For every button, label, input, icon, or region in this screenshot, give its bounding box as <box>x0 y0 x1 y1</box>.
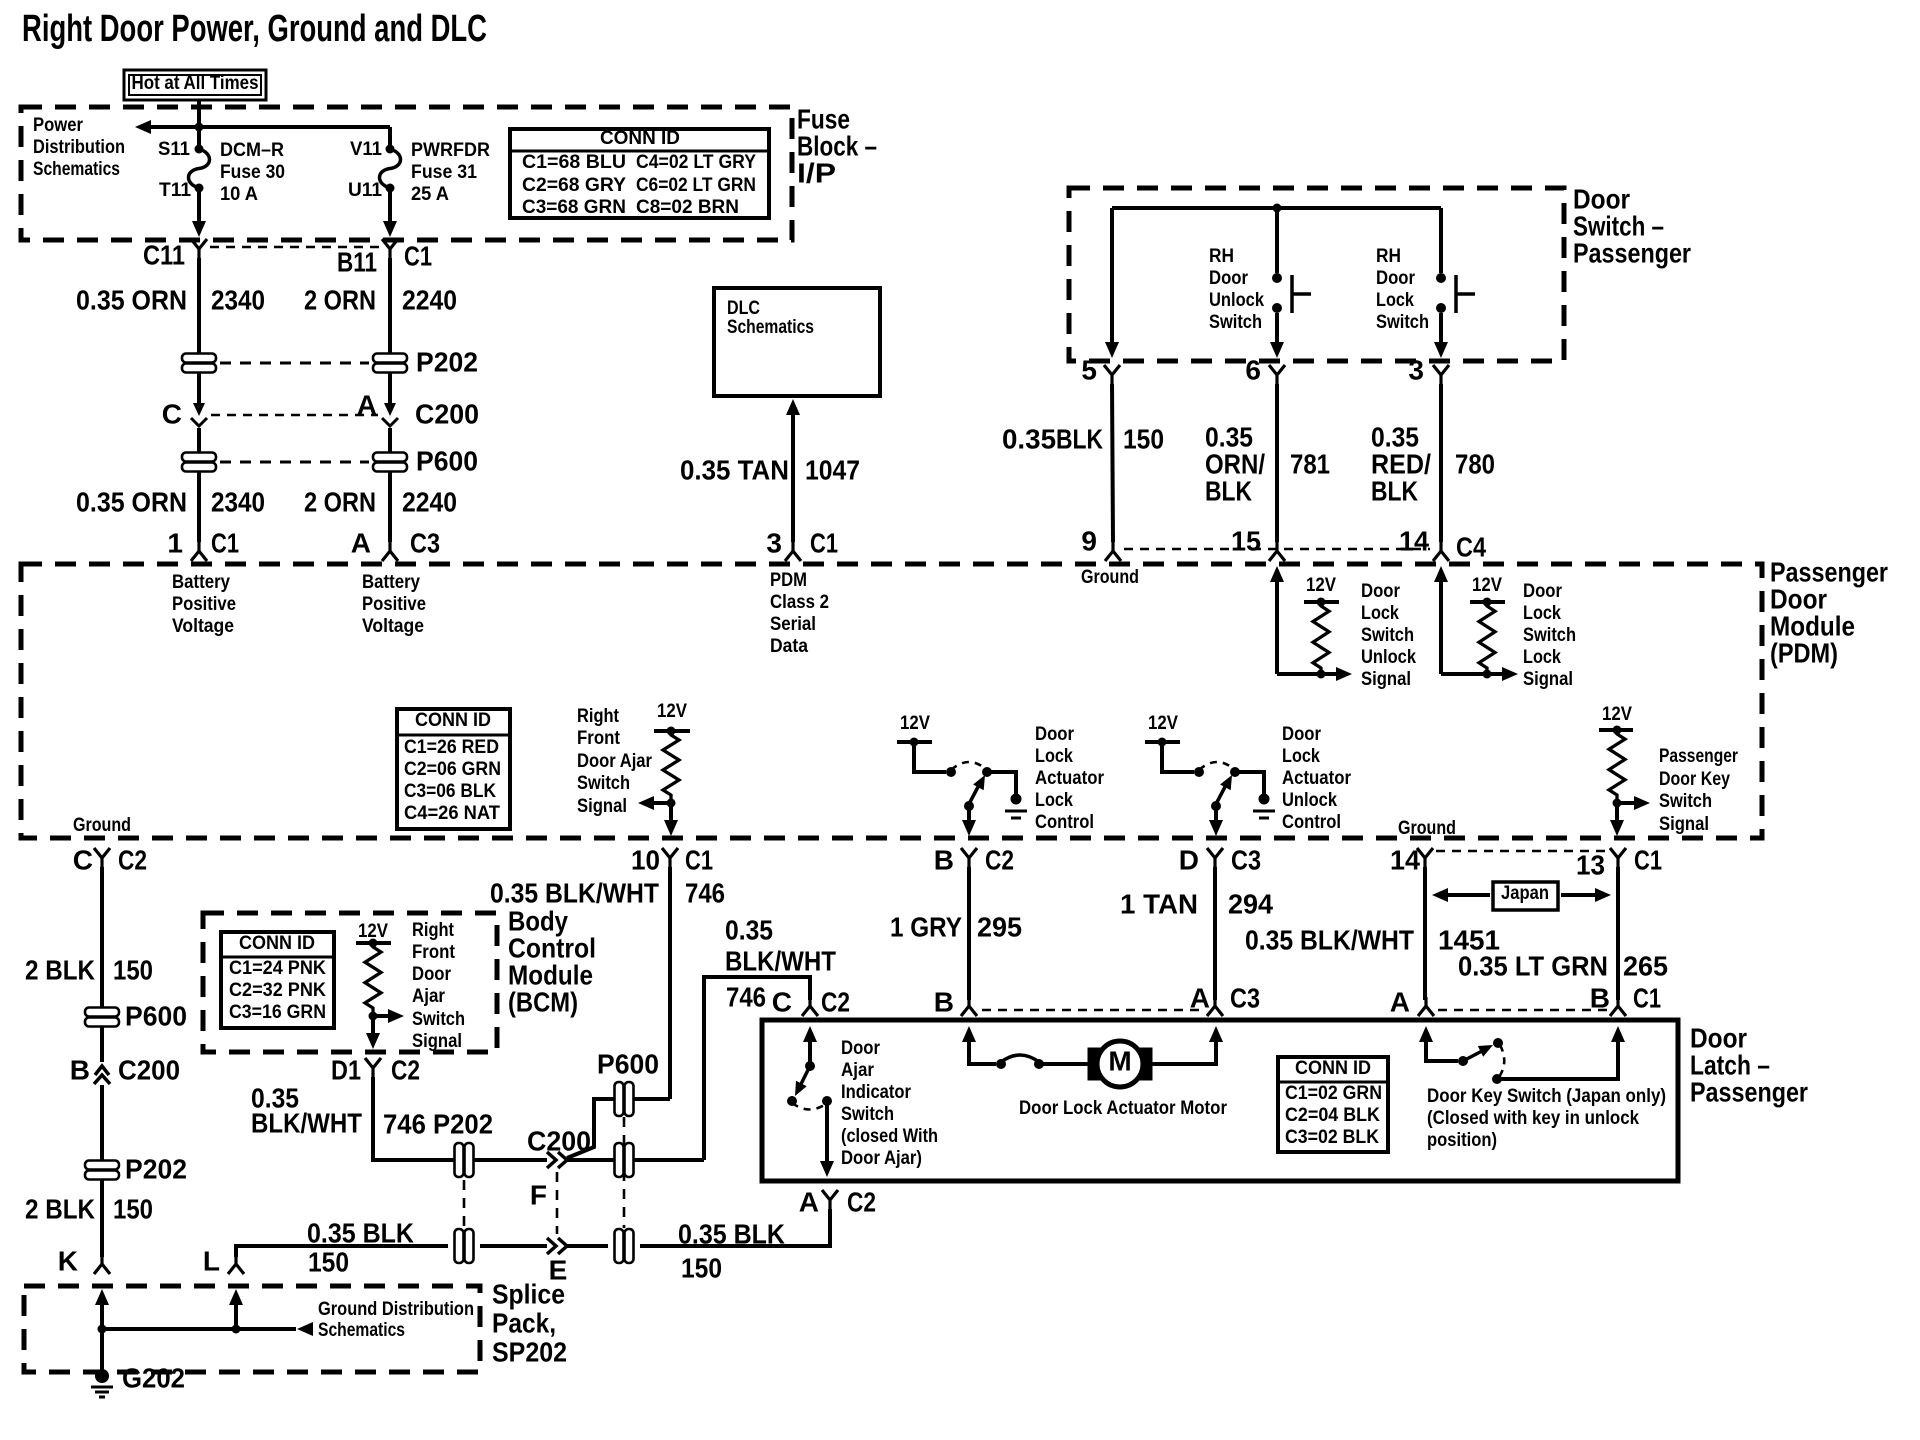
connector row C11-B11 dashed line <box>210 246 380 248</box>
svg-text:746: 746 <box>726 981 766 1012</box>
resistor unlock signal <box>1313 602 1329 672</box>
wire label 0.35 BLK/WHT 746 BCM <box>251 1082 493 1139</box>
svg-text:14: 14 <box>1399 525 1429 556</box>
svg-text:Switch: Switch <box>1209 312 1262 333</box>
latch pin A C3 <box>1190 982 1260 1016</box>
right front door ajar switch signal label <box>577 706 653 817</box>
svg-text:C200: C200 <box>118 1054 180 1085</box>
svg-text:Switch: Switch <box>577 773 630 794</box>
splice L entry arrow <box>229 1289 243 1329</box>
svg-text:Passenger: Passenger <box>1573 237 1691 268</box>
svg-text:Lock: Lock <box>1376 290 1414 311</box>
svg-text:BLK: BLK <box>1205 475 1252 506</box>
svg-text:C3=02 BLK: C3=02 BLK <box>1285 1127 1379 1148</box>
svg-text:0.35: 0.35 <box>1002 423 1056 454</box>
connector P202 on ground run <box>455 1229 474 1263</box>
connector C200 B on ground wire <box>70 1054 180 1085</box>
svg-text:150: 150 <box>308 1246 349 1277</box>
door switch pin 6 <box>1245 354 1285 385</box>
fuse block label <box>797 103 877 188</box>
svg-text:B: B <box>934 986 954 1017</box>
wire 2240 lower segment <box>388 472 392 542</box>
svg-text:Fuse 31: Fuse 31 <box>411 162 477 183</box>
svg-text:P202: P202 <box>416 346 478 377</box>
wire 150 lower to splice <box>100 1180 104 1257</box>
connector P600 lower on 746 <box>615 1143 634 1177</box>
latch pin B <box>934 986 977 1017</box>
svg-text:Unlock: Unlock <box>1282 790 1337 811</box>
svg-text:C4=26 NAT: C4=26 NAT <box>404 803 500 824</box>
svg-text:C200: C200 <box>415 398 479 429</box>
resistor key switch <box>1609 730 1625 799</box>
svg-text:15: 15 <box>1231 525 1261 556</box>
junction at S11 feed <box>195 123 204 132</box>
wire label 0.35 LT GRN 265 <box>1458 950 1668 981</box>
svg-text:C2: C2 <box>391 1054 420 1085</box>
svg-text:Battery: Battery <box>172 572 230 593</box>
svg-text:position): position) <box>1427 1130 1497 1151</box>
splice connector E <box>547 1238 567 1285</box>
wire between P600 and C200 <box>100 1027 104 1062</box>
connector P202 inline pair <box>182 346 478 377</box>
svg-text:C2: C2 <box>821 986 850 1017</box>
svg-text:A: A <box>799 1186 819 1217</box>
svg-text:1047: 1047 <box>805 454 860 485</box>
wire fuse30 to C11 <box>192 192 206 237</box>
ground branch wire in door switch <box>1105 208 1119 358</box>
connector P600 upper on 746 <box>597 1048 659 1116</box>
wire label 0.35 BLK/WHT 1451 <box>1245 924 1500 955</box>
svg-text:Ground: Ground <box>73 815 131 836</box>
svg-text:Door: Door <box>1361 581 1401 602</box>
door switch pin 5 <box>1081 354 1120 385</box>
ground distribution schematics label <box>318 1299 474 1341</box>
svg-text:(BCM): (BCM) <box>508 986 578 1017</box>
svg-text:B: B <box>934 844 954 875</box>
P600 same-connector dashed link <box>623 1117 626 1228</box>
svg-text:PDM: PDM <box>770 570 807 591</box>
wire 746 up to latch pin C <box>704 977 810 1160</box>
svg-text:C4=02 LT GRY: C4=02 LT GRY <box>636 152 756 173</box>
svg-text:Control: Control <box>1035 812 1094 833</box>
key switch junction arrow <box>1613 796 1651 810</box>
svg-text:Ajar: Ajar <box>841 1060 875 1081</box>
door switch pin 3 <box>1408 354 1449 385</box>
wire 295 pin B to latch <box>967 867 971 1000</box>
door latch passenger box <box>762 1020 1678 1181</box>
door latch CONN ID table <box>1278 1057 1388 1152</box>
splice bus junction K <box>98 1325 107 1334</box>
svg-text:0.35 LT GRN: 0.35 LT GRN <box>1458 950 1608 981</box>
svg-text:C2: C2 <box>118 844 147 875</box>
PDM CONN ID table <box>397 709 510 829</box>
svg-text:12V: 12V <box>900 713 930 734</box>
svg-text:C2=04 BLK: C2=04 BLK <box>1285 1105 1380 1126</box>
svg-text:0.35 TAN: 0.35 TAN <box>680 454 789 485</box>
svg-text:U11: U11 <box>348 180 382 201</box>
svg-text:746 P202: 746 P202 <box>383 1108 493 1139</box>
svg-text:C1=68 BLU: C1=68 BLU <box>522 152 626 173</box>
latch pin B C1 <box>1590 982 1661 1016</box>
svg-text:C3=06 BLK: C3=06 BLK <box>404 781 496 802</box>
svg-text:B11: B11 <box>337 246 377 277</box>
svg-text:2240: 2240 <box>402 284 457 315</box>
svg-text:Signal: Signal <box>1523 669 1573 690</box>
splice pack label <box>492 1278 567 1367</box>
latch pin C C2 <box>772 986 850 1017</box>
junction in door switch <box>1273 204 1282 213</box>
wire label 0.35 BLK/WHT 746 latch <box>725 914 836 1012</box>
svg-text:Voltage: Voltage <box>362 616 424 637</box>
wire segment between C200 and P600 left <box>197 428 201 452</box>
unlock switch branch wire <box>1275 208 1279 273</box>
svg-text:Actuator: Actuator <box>1035 768 1105 789</box>
title text <box>22 8 487 50</box>
svg-text:781: 781 <box>1290 448 1330 479</box>
PDM label <box>1770 556 1888 668</box>
svg-text:Positive: Positive <box>362 594 426 615</box>
resistor lock signal <box>1479 602 1495 672</box>
P202 same-connector dashed link <box>463 1180 466 1228</box>
svg-text:DCM–R: DCM–R <box>220 140 284 161</box>
12V label unlock signal <box>1306 575 1336 596</box>
svg-text:2 ORN: 2 ORN <box>304 284 376 315</box>
svg-text:C1=02 GRN: C1=02 GRN <box>1285 1083 1382 1104</box>
wire label 0.35 TAN 1047 <box>680 454 860 485</box>
door lock switch lock signal label <box>1523 581 1576 690</box>
door lock actuator unlock control switch <box>1194 762 1240 811</box>
ground branch lock control <box>987 772 1027 818</box>
svg-text:Lock: Lock <box>1361 603 1399 624</box>
svg-text:Indicator: Indicator <box>841 1082 912 1103</box>
svg-text:1: 1 <box>167 527 183 558</box>
pin 14 internal wire <box>1434 566 1487 674</box>
wire 2340 lower segment <box>197 472 201 542</box>
ground label right PDM <box>1398 818 1456 839</box>
battery positive voltage label 1 <box>172 572 236 637</box>
svg-text:0.35 BLK/WHT: 0.35 BLK/WHT <box>490 877 659 908</box>
wire 780 <box>1439 384 1443 542</box>
svg-text:DLC: DLC <box>727 298 760 319</box>
svg-text:Switch: Switch <box>1361 625 1414 646</box>
svg-text:Door Ajar): Door Ajar) <box>841 1148 922 1169</box>
svg-text:T11: T11 <box>159 180 191 201</box>
12V label unlock control <box>1148 713 1178 734</box>
svg-text:A: A <box>357 389 377 420</box>
svg-text:BLK/WHT: BLK/WHT <box>725 945 836 976</box>
resistor door ajar PDM <box>663 731 679 799</box>
PDM class 2 serial data label <box>770 570 829 657</box>
fuse block CONN ID table <box>510 128 769 218</box>
svg-text:294: 294 <box>1228 888 1273 919</box>
wire ground run E to P202 <box>480 1244 547 1248</box>
svg-text:265: 265 <box>1623 950 1668 981</box>
svg-text:Ground: Ground <box>1398 818 1456 839</box>
svg-text:Signal: Signal <box>1361 669 1411 690</box>
svg-text:C3: C3 <box>1231 844 1261 875</box>
fuse 31 PWRFDR <box>348 139 490 205</box>
wire fuse31 to B11 <box>383 192 397 237</box>
svg-text:Data: Data <box>770 636 808 657</box>
lock switch branch wire <box>1439 208 1443 273</box>
ground branch unlock control <box>1235 772 1275 818</box>
latch pin A C2 bottom <box>799 1186 876 1217</box>
wire label 0.35 ORN/BLK 781 <box>1205 421 1330 506</box>
svg-text:C11: C11 <box>143 239 185 270</box>
svg-text:P600: P600 <box>416 445 478 476</box>
svg-text:Signal: Signal <box>1659 814 1709 835</box>
wire motor to pin A C3 <box>1152 1026 1223 1064</box>
svg-text:10: 10 <box>631 844 660 875</box>
12V label key switch <box>1602 704 1632 725</box>
svg-text:2 BLK: 2 BLK <box>25 1193 95 1224</box>
svg-text:Lock: Lock <box>1282 746 1320 767</box>
wire label 0.35 BLK 150 right <box>678 1218 785 1283</box>
svg-text:Schematics: Schematics <box>33 159 120 180</box>
hot at all times label box <box>124 70 266 100</box>
connector P202 inline on 746 <box>455 1143 474 1177</box>
C200 F to E dashed link <box>530 1172 557 1234</box>
svg-text:C2: C2 <box>985 844 1014 875</box>
svg-text:Schematics: Schematics <box>727 317 814 338</box>
svg-text:Switch: Switch <box>1376 312 1429 333</box>
svg-text:Door Key Switch (Japan only): Door Key Switch (Japan only) <box>1427 1086 1666 1107</box>
battery positive voltage label 2 <box>362 572 426 637</box>
wire unlock control to pin D <box>1209 806 1223 836</box>
svg-text:C8=02 BRN: C8=02 BRN <box>636 197 739 218</box>
svg-text:Pack,: Pack, <box>492 1307 556 1338</box>
svg-text:0.35 ORN: 0.35 ORN <box>76 486 187 517</box>
wire segment between P202 and C200 right <box>388 373 392 405</box>
wire door ajar to pin 10 <box>664 803 678 836</box>
wire 265 pin 13 to latch <box>1616 867 1620 1000</box>
svg-text:Lock: Lock <box>1523 603 1561 624</box>
wire segment between P202 and C200 left <box>197 373 201 405</box>
svg-text:C4: C4 <box>1456 531 1486 562</box>
wire ground run P202 to L <box>236 1246 448 1257</box>
svg-text:Ground: Ground <box>1081 567 1139 588</box>
svg-text:Actuator: Actuator <box>1282 768 1352 789</box>
svg-text:Front: Front <box>412 942 456 963</box>
svg-text:Unlock: Unlock <box>1361 647 1416 668</box>
door switch feed wire <box>1112 206 1441 210</box>
wire 1047 to DLC <box>786 399 800 542</box>
wire contacts to motor <box>1039 1062 1088 1066</box>
svg-text:746: 746 <box>685 877 725 908</box>
RH door lock switch <box>1376 246 1475 333</box>
PDM pin 9 <box>1081 525 1121 561</box>
power feed arrow to power distribution <box>135 120 390 134</box>
svg-text:Door: Door <box>1209 268 1249 289</box>
svg-text:Lock: Lock <box>1035 790 1073 811</box>
wire from hot-at-all-times into fuse block <box>197 100 201 149</box>
latch pin A key <box>1390 986 1434 1017</box>
RH door unlock switch <box>1209 246 1311 333</box>
svg-text:Right: Right <box>577 706 620 727</box>
svg-text:CONN ID: CONN ID <box>1295 1058 1371 1079</box>
svg-text:C1=26 RED: C1=26 RED <box>404 737 499 758</box>
svg-text:RH: RH <box>1376 246 1401 267</box>
svg-text:Door: Door <box>1282 724 1322 745</box>
svg-text:Distribution: Distribution <box>33 137 125 158</box>
svg-text:V11: V11 <box>350 139 382 160</box>
door ajar signal junction <box>667 799 676 808</box>
connector C200 F on 746 <box>527 1125 591 1168</box>
door lock actuator lock control label <box>1035 724 1105 833</box>
12V rail key switch <box>1599 726 1633 735</box>
svg-text:C3: C3 <box>1230 982 1260 1013</box>
12V label lock signal <box>1472 575 1502 596</box>
svg-text:14: 14 <box>1390 844 1420 875</box>
12V rail unlock control <box>1145 738 1180 747</box>
svg-text:I/P: I/P <box>797 157 836 188</box>
svg-text:C6=02 LT GRN: C6=02 LT GRN <box>636 175 756 196</box>
svg-text:Serial: Serial <box>770 614 816 635</box>
svg-text:BLK: BLK <box>1371 475 1418 506</box>
svg-text:C2=32 PNK: C2=32 PNK <box>229 980 326 1001</box>
svg-text:A: A <box>1190 982 1210 1013</box>
12V rail BCM <box>356 939 391 948</box>
wire 150 door switch to PDM <box>1112 384 1113 542</box>
svg-text:0.35 BLK: 0.35 BLK <box>678 1218 785 1249</box>
svg-text:Class 2: Class 2 <box>770 592 829 613</box>
svg-text:A: A <box>1390 986 1410 1017</box>
splice bus wire <box>102 1327 296 1331</box>
svg-text:Voltage: Voltage <box>172 616 234 637</box>
12V label BCM <box>358 921 388 942</box>
door lock actuator unlock control label <box>1282 724 1352 833</box>
svg-text:G202: G202 <box>122 1362 185 1393</box>
svg-text:F: F <box>530 1179 547 1210</box>
svg-text:C2=68 GRY: C2=68 GRY <box>522 175 626 196</box>
svg-text:150: 150 <box>1123 423 1164 454</box>
splice K entry arrow <box>95 1289 109 1371</box>
svg-text:1 TAN: 1 TAN <box>1120 888 1198 919</box>
DLC schematics box <box>714 288 880 396</box>
svg-text:C: C <box>162 398 182 429</box>
svg-text:Front: Front <box>577 728 621 749</box>
wire 150 from pin C upper <box>100 867 104 1007</box>
svg-text:A: A <box>351 527 371 558</box>
svg-text:Unlock: Unlock <box>1209 290 1264 311</box>
door key switch label <box>1427 1086 1666 1151</box>
svg-text:Signal: Signal <box>412 1031 462 1052</box>
svg-text:M: M <box>1108 1045 1131 1076</box>
unlock switch lower wire <box>1270 313 1284 358</box>
svg-text:Door Lock Actuator Motor: Door Lock Actuator Motor <box>1019 1098 1228 1119</box>
motor switch contacts <box>996 1055 1044 1069</box>
svg-text:10 A: 10 A <box>220 184 258 205</box>
wire 2240 upper segment <box>388 258 392 353</box>
door ajar indicator label <box>841 1038 938 1169</box>
PDM pin B C2 <box>934 844 1014 875</box>
svg-text:B: B <box>70 1054 90 1085</box>
svg-text:(closed With: (closed With <box>841 1126 938 1147</box>
wire 12V to unlock switch <box>1162 742 1194 772</box>
svg-text:C1: C1 <box>1634 844 1662 875</box>
svg-text:D: D <box>1179 844 1199 875</box>
svg-text:C1: C1 <box>404 240 432 271</box>
svg-text:Positive: Positive <box>172 594 236 615</box>
svg-text:CONN ID: CONN ID <box>600 128 680 149</box>
wire label 0.35 BLK 150 left <box>307 1217 414 1277</box>
right front door ajar switch signal BCM label <box>412 920 465 1052</box>
svg-text:12V: 12V <box>1306 575 1336 596</box>
door lock switch unlock signal label <box>1361 581 1416 690</box>
wire BCM junction to pin D1 <box>366 1016 380 1049</box>
svg-text:Right Door Power, Ground and D: Right Door Power, Ground and DLC <box>22 8 487 50</box>
svg-text:2 ORN: 2 ORN <box>304 486 376 517</box>
svg-text:CONN ID: CONN ID <box>239 933 315 954</box>
svg-text:Lock: Lock <box>1523 647 1561 668</box>
svg-text:Japan: Japan <box>1501 883 1549 904</box>
ground label inside PDM under pin 9 <box>1081 567 1139 588</box>
unlock signal junction arrow <box>1317 667 1353 681</box>
splice pin L <box>203 1245 244 1276</box>
wire 294 pin D to latch <box>1213 867 1217 1000</box>
svg-text:C1: C1 <box>1633 982 1661 1013</box>
resistor BCM door ajar <box>365 943 381 1012</box>
svg-text:Passenger: Passenger <box>1659 746 1738 767</box>
PDM pin 3 C1 <box>766 527 838 561</box>
PDM pin 13 C1 bottom <box>1576 844 1662 880</box>
svg-text:25 A: 25 A <box>411 184 449 205</box>
wire label 0.35 ORN 2340 upper <box>76 284 457 315</box>
svg-text:P202: P202 <box>125 1153 187 1184</box>
svg-text:2340: 2340 <box>211 284 265 315</box>
door latch label <box>1690 1022 1808 1107</box>
wire 781 <box>1275 384 1279 542</box>
pin 15 internal wire <box>1270 566 1321 674</box>
12V rail unlock signal <box>1304 598 1339 607</box>
svg-text:Control: Control <box>1282 812 1341 833</box>
svg-text:Battery: Battery <box>362 572 420 593</box>
splice pack SP202 dashed box <box>24 1286 480 1372</box>
svg-text:Switch: Switch <box>1659 791 1712 812</box>
connector P202 on ground wire <box>85 1153 187 1184</box>
svg-text:Door: Door <box>412 964 452 985</box>
PDM connector C1 bottom dashed row <box>1436 850 1606 852</box>
connector C11 <box>143 239 207 270</box>
wire between C200 and P202 <box>100 1085 104 1160</box>
connector P600 on ground wire <box>85 1000 187 1031</box>
svg-text:C2: C2 <box>847 1186 876 1217</box>
svg-text:0.35 ORN: 0.35 ORN <box>76 284 187 315</box>
splice bus junction L <box>232 1325 241 1334</box>
wire label 1 GRY 295 <box>890 911 1022 942</box>
PDM pin 1 C1 <box>167 527 239 561</box>
wire label 0.35 ORN 2340 lower <box>76 486 457 517</box>
svg-text:S11: S11 <box>158 139 190 160</box>
svg-text:Switch: Switch <box>841 1104 894 1125</box>
svg-text:780: 780 <box>1455 448 1495 479</box>
svg-text:2340: 2340 <box>211 486 265 517</box>
svg-text:C: C <box>73 844 93 875</box>
power distribution schematics label <box>33 115 125 180</box>
fuse 30 DCM-R <box>158 139 285 205</box>
svg-text:1 GRY: 1 GRY <box>890 911 962 942</box>
lock switch lower wire <box>1434 313 1448 358</box>
door ajar signal arrow <box>638 796 671 810</box>
svg-text:Switch: Switch <box>412 1009 465 1030</box>
svg-text:Switch: Switch <box>1523 625 1576 646</box>
svg-text:12V: 12V <box>1472 575 1502 596</box>
japan only range arrow <box>1432 882 1611 910</box>
wire key switch to pin 13 <box>1610 803 1624 836</box>
svg-text:C: C <box>772 986 792 1017</box>
ground label left PDM <box>73 815 131 836</box>
svg-text:5: 5 <box>1081 354 1097 385</box>
